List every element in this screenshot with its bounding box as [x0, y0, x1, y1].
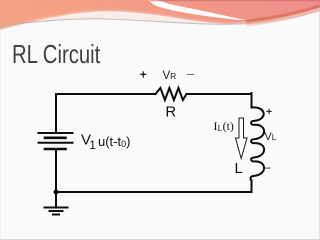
- wire bottom: [56, 191, 252, 193]
- header decoration: [0, 0, 320, 50]
- battery plate short bottom: [45, 148, 66, 151]
- ground bar 1: [45, 207, 68, 209]
- title: [12, 39, 100, 70]
- faint pink under-wave: [0, 0, 320, 26]
- battery plate long: [39, 142, 73, 144]
- wire top-left to resistor: [56, 93, 156, 95]
- wire left top (top corner down to battery): [55, 95, 57, 132]
- resistor R: [156, 88, 187, 100]
- svg-text:VR: VR: [163, 70, 177, 82]
- current arrow IL(t): [236, 118, 248, 159]
- wire right side bottom: [251, 181, 253, 193]
- junction node dot: [54, 190, 59, 195]
- wire left bottom (battery to junction): [55, 149, 57, 192]
- inductor L: [250, 107, 264, 180]
- dark red arc right: [246, 6, 320, 21]
- ground bar 3: [53, 214, 59, 216]
- battery V1 plate long top: [39, 132, 73, 134]
- soft salmon glow under arc: [246, 9, 320, 24]
- svg-text:–: –: [264, 160, 271, 174]
- svg-text:+: +: [140, 67, 147, 81]
- svg-text:–: –: [187, 67, 194, 81]
- svg-text:u(t-t0): u(t-t0): [98, 134, 130, 149]
- svg-text:V1: V1: [81, 131, 96, 152]
- ground stem: [55, 192, 57, 207]
- soft white fade on band bottom edge: [0, 8, 320, 30]
- salmon band: [0, 0, 320, 30]
- svg-text:IL(t): IL(t): [214, 119, 234, 133]
- svg-text:R: R: [165, 104, 176, 121]
- wire resistor to top-right corner: [187, 93, 252, 95]
- ground bar 2: [50, 210, 63, 212]
- white swoosh stripe: [149, 0, 246, 20]
- wire right side top: [251, 93, 253, 108]
- dark rose top edge right: [150, 0, 320, 2]
- svg-text:+: +: [266, 106, 272, 118]
- battery plate short: [45, 137, 66, 140]
- svg-text:VL: VL: [265, 131, 277, 143]
- svg-text:L: L: [235, 160, 243, 177]
- thin gray curve (under-wave edge): [0, 10, 320, 26]
